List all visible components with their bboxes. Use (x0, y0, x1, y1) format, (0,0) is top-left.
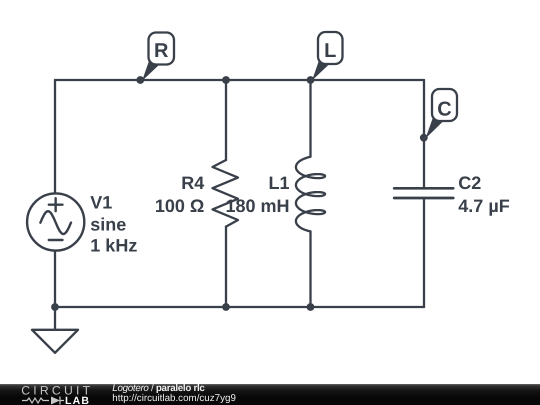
node flag R (142, 33, 174, 82)
svg-text:100 Ω: 100 Ω (155, 196, 204, 216)
svg-text:V1: V1 (90, 192, 112, 212)
wire top rail (55, 79, 424, 81)
wire left rail upper (54, 80, 56, 193)
ground (32, 330, 78, 353)
svg-text:4.7 µF: 4.7 µF (458, 196, 509, 216)
resistor R4 (213, 160, 239, 227)
svg-text:C2: C2 (458, 173, 481, 193)
wire inductor branch bottom (309, 232, 311, 307)
svg-text:R4: R4 (181, 173, 204, 193)
svg-text:R: R (154, 40, 169, 62)
svg-text:http://circuitlab.com/cuz7yg9: http://circuitlab.com/cuz7yg9 (112, 393, 236, 404)
wire right rail upper (423, 80, 425, 188)
wire resistor branch top (225, 80, 227, 160)
svg-text:L: L (324, 40, 336, 62)
junction inductor top / node L (307, 76, 315, 84)
capacitor C2 (394, 188, 453, 198)
svg-text:C: C (437, 99, 451, 121)
voltage source V1 (27, 193, 84, 250)
wire inductor branch top (309, 80, 311, 157)
wire ground stem (54, 307, 56, 330)
node flag L (312, 32, 343, 81)
svg-text:L1: L1 (268, 173, 289, 193)
junction resistor bottom (222, 303, 230, 311)
junction inductor bottom (307, 303, 315, 311)
svg-text:180 mH: 180 mH (225, 196, 289, 216)
wire right rail lower (423, 199, 425, 307)
node flag C (426, 89, 458, 139)
junction ground (51, 303, 59, 311)
inductor L1 (296, 157, 325, 232)
footer bar (0, 384, 540, 405)
wire resistor branch bottom (225, 227, 227, 307)
junction resistor top (222, 76, 230, 84)
junction node C (right rail) (420, 134, 428, 142)
svg-text:1 kHz: 1 kHz (90, 236, 137, 256)
wire bottom rail (55, 306, 424, 308)
wire left rail lower (54, 251, 56, 307)
junction node R (top rail) (136, 76, 144, 84)
labels (90, 173, 509, 255)
footer logo squiggle + diode (22, 397, 64, 405)
svg-text:LAB: LAB (65, 395, 90, 405)
svg-text:sine: sine (90, 214, 126, 234)
